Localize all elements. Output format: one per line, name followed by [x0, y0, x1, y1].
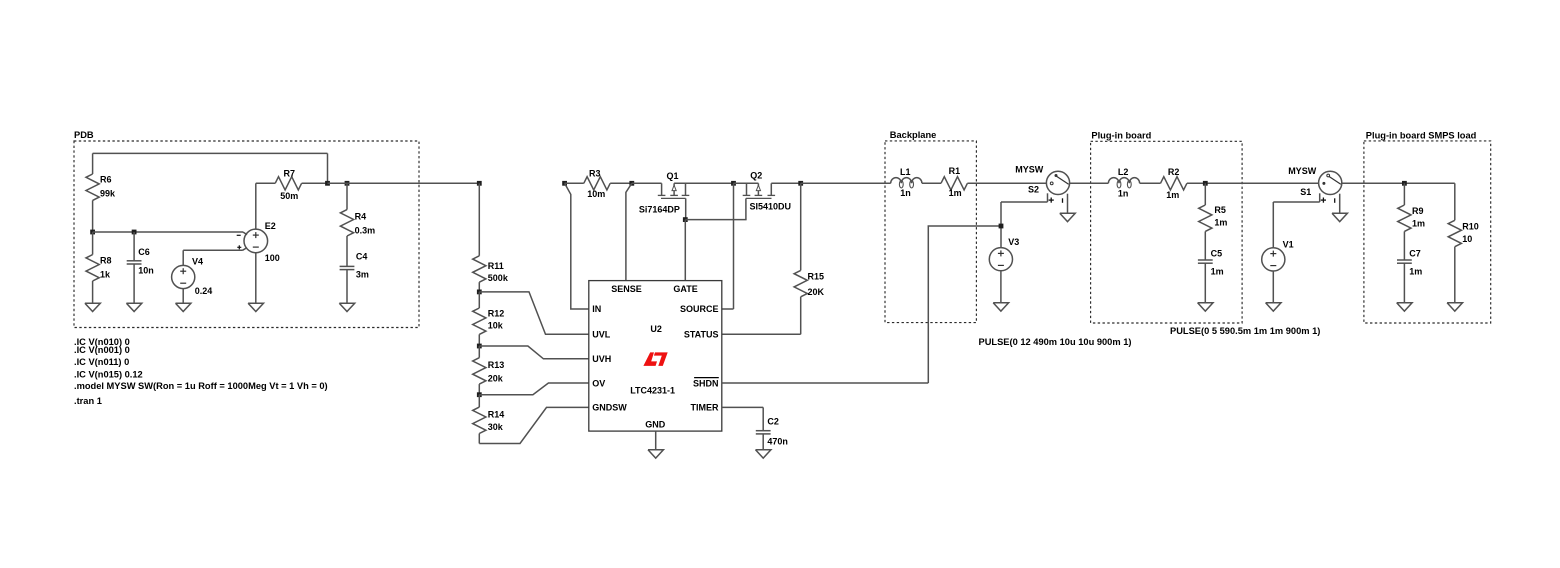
svg-text:R4: R4 [355, 212, 367, 222]
svg-text:.IC V(n001) 0: .IC V(n001) 0 [74, 345, 130, 355]
svg-text:0.24: 0.24 [195, 286, 213, 296]
svg-text:OV: OV [592, 378, 605, 388]
svg-text:.tran 1: .tran 1 [74, 396, 102, 406]
svg-text:GNDSW: GNDSW [592, 403, 627, 413]
svg-text:V1: V1 [1283, 239, 1294, 249]
svg-text:470n: 470n [767, 437, 788, 447]
svg-text:1m: 1m [1412, 218, 1425, 228]
svg-text:PULSE(0 12 490m 10u 10u 900m 1: PULSE(0 12 490m 10u 10u 900m 1) [979, 337, 1132, 347]
svg-text:IN: IN [592, 304, 601, 314]
svg-text:1m: 1m [1211, 267, 1224, 277]
svg-text:PDB: PDB [74, 130, 94, 140]
svg-text:GATE: GATE [673, 284, 697, 294]
svg-text:99k: 99k [100, 188, 116, 198]
svg-text:R15: R15 [808, 271, 825, 281]
svg-text:Backplane: Backplane [890, 130, 937, 140]
svg-text:R3: R3 [589, 168, 601, 178]
svg-text:1m: 1m [949, 188, 962, 198]
svg-text:R12: R12 [488, 308, 505, 318]
svg-text:E2: E2 [265, 221, 276, 231]
svg-text:1m: 1m [1166, 190, 1179, 200]
svg-text:.IC V(n011) 0: .IC V(n011) 0 [74, 357, 129, 367]
svg-text:10m: 10m [587, 189, 605, 199]
svg-text:.model MYSW SW(Ron = 1u Roff =: .model MYSW SW(Ron = 1u Roff = 1000Meg V… [74, 381, 328, 391]
svg-text:U2: U2 [650, 324, 662, 334]
svg-text:50m: 50m [280, 191, 298, 201]
svg-text:R14: R14 [488, 409, 505, 419]
svg-text:S2: S2 [1028, 185, 1039, 195]
svg-text:Si7164DP: Si7164DP [639, 204, 680, 214]
svg-text:10k: 10k [488, 321, 504, 331]
svg-text:MYSW: MYSW [1015, 165, 1044, 175]
svg-text:TIMER: TIMER [691, 403, 719, 413]
svg-text:PULSE(0 5 590.5m 1m 1m 900m 1): PULSE(0 5 590.5m 1m 1m 900m 1) [1170, 326, 1320, 336]
svg-text:1n: 1n [900, 188, 911, 198]
svg-text:C5: C5 [1211, 249, 1223, 259]
svg-text:100: 100 [265, 253, 280, 263]
svg-text:0.3m: 0.3m [355, 225, 376, 235]
svg-text:20k: 20k [488, 373, 504, 383]
svg-text:C7: C7 [1409, 249, 1421, 259]
svg-text:L1: L1 [900, 167, 911, 177]
svg-text:R5: R5 [1214, 205, 1226, 215]
svg-text:.IC V(n015) 0.12: .IC V(n015) 0.12 [74, 369, 143, 379]
svg-text:LTC4231-1: LTC4231-1 [630, 386, 675, 396]
svg-text:1m: 1m [1214, 218, 1227, 228]
svg-text:20K: 20K [808, 287, 825, 297]
svg-text:SHDN: SHDN [693, 378, 719, 388]
svg-text:R13: R13 [488, 360, 505, 370]
svg-text:R11: R11 [488, 261, 504, 271]
svg-text:GND: GND [645, 420, 666, 430]
svg-text:R7: R7 [284, 168, 296, 178]
svg-text:Q2: Q2 [750, 170, 762, 180]
svg-text:SENSE: SENSE [611, 284, 642, 294]
svg-text:500k: 500k [488, 273, 509, 283]
svg-text:Plug-in board: Plug-in board [1091, 131, 1151, 141]
svg-text:V3: V3 [1008, 237, 1019, 247]
svg-text:MYSW: MYSW [1288, 166, 1317, 176]
svg-text:3m: 3m [356, 270, 369, 280]
svg-text:R9: R9 [1412, 206, 1424, 216]
svg-text:UVL: UVL [592, 330, 611, 340]
svg-text:30k: 30k [488, 422, 504, 432]
svg-text:SI5410DU: SI5410DU [750, 201, 792, 211]
svg-text:C2: C2 [767, 416, 779, 426]
svg-text:1n: 1n [1118, 189, 1129, 199]
svg-text:C6: C6 [138, 247, 150, 257]
svg-text:L2: L2 [1118, 167, 1129, 177]
svg-text:10n: 10n [138, 266, 154, 276]
svg-text:V4: V4 [192, 256, 203, 266]
svg-text:1k: 1k [100, 269, 111, 279]
svg-text:S1: S1 [1300, 187, 1311, 197]
svg-text:1m: 1m [1409, 267, 1422, 277]
svg-text:Q1: Q1 [667, 171, 679, 181]
svg-text:R10: R10 [1462, 221, 1479, 231]
svg-text:R1: R1 [949, 166, 961, 176]
svg-text:SOURCE: SOURCE [680, 304, 719, 314]
svg-text:STATUS: STATUS [684, 330, 719, 340]
svg-text:R8: R8 [100, 255, 112, 265]
svg-text:UVH: UVH [592, 354, 611, 364]
svg-text:C4: C4 [356, 251, 368, 261]
svg-text:10: 10 [1462, 234, 1472, 244]
svg-text:R6: R6 [100, 175, 112, 185]
svg-text:Plug-in board SMPS load: Plug-in board SMPS load [1366, 131, 1477, 141]
svg-text:R2: R2 [1168, 167, 1180, 177]
